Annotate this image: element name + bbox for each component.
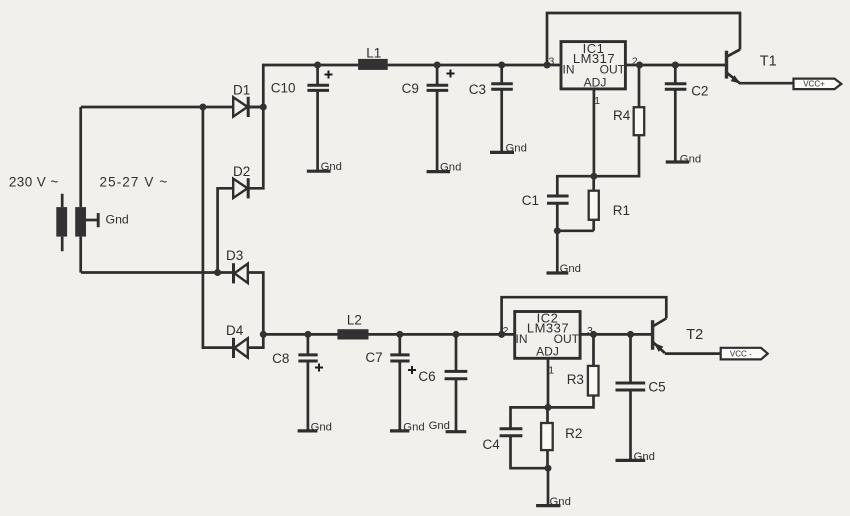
svg-text:Gnd: Gnd	[550, 496, 571, 508]
svg-text:230 V ~: 230 V ~	[9, 175, 59, 190]
svg-text:3: 3	[549, 56, 555, 68]
svg-text:R3: R3	[567, 372, 584, 387]
svg-text:C4: C4	[483, 437, 501, 452]
svg-text:L2: L2	[347, 313, 362, 328]
svg-text:2: 2	[632, 56, 638, 68]
svg-text:C1: C1	[522, 193, 539, 208]
svg-text:D4: D4	[226, 323, 244, 338]
svg-text:Gnd: Gnd	[403, 421, 424, 433]
svg-text:T1: T1	[760, 54, 777, 70]
svg-text:3: 3	[587, 325, 593, 337]
svg-text:D3: D3	[226, 248, 243, 263]
svg-text:C3: C3	[469, 82, 486, 97]
svg-text:VCC -: VCC -	[730, 350, 752, 359]
svg-text:Gnd: Gnd	[321, 161, 342, 173]
svg-text:C6: C6	[418, 369, 435, 384]
svg-text:D1: D1	[233, 83, 250, 98]
svg-text:Gnd: Gnd	[560, 263, 581, 275]
svg-text:C5: C5	[648, 380, 665, 395]
svg-text:T2: T2	[686, 327, 703, 343]
svg-text:Gnd: Gnd	[440, 162, 461, 174]
svg-text:Gnd: Gnd	[311, 422, 332, 434]
svg-text:L1: L1	[366, 46, 381, 61]
svg-text:Gnd: Gnd	[506, 142, 527, 154]
svg-text:R1: R1	[613, 203, 630, 218]
svg-text:Gnd: Gnd	[680, 153, 701, 165]
svg-text:1: 1	[594, 95, 600, 107]
svg-text:ADJ: ADJ	[584, 75, 607, 89]
svg-text:25-27 V ~: 25-27 V ~	[100, 175, 169, 190]
svg-text:VCC+: VCC+	[803, 80, 825, 89]
svg-text:Gnd: Gnd	[634, 451, 655, 463]
svg-text:ADJ: ADJ	[536, 344, 559, 358]
svg-text:C2: C2	[691, 84, 708, 99]
svg-text:1: 1	[548, 365, 554, 377]
svg-text:C9: C9	[402, 81, 419, 96]
svg-text:R4: R4	[613, 108, 631, 123]
svg-text:IN: IN	[516, 332, 528, 346]
svg-text:Gnd: Gnd	[429, 420, 450, 432]
svg-text:IN: IN	[563, 63, 575, 77]
svg-text:C8: C8	[272, 351, 289, 366]
svg-text:C7: C7	[365, 350, 382, 365]
svg-text:R2: R2	[565, 426, 582, 441]
svg-text:2: 2	[503, 325, 509, 337]
svg-text:C10: C10	[271, 81, 296, 96]
svg-text:Gnd: Gnd	[106, 212, 129, 226]
svg-text:D2: D2	[233, 164, 250, 179]
